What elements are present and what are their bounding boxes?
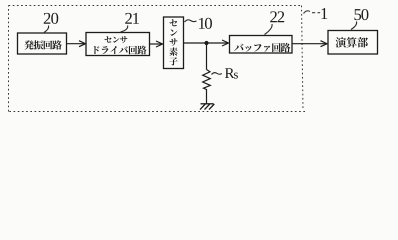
label 22 with leader [265,11,285,34]
label 20 with leader [44,13,59,33]
block 演算部 (arithmetic unit) 50 [328,31,378,55]
block センサドライバ回路 (sensor driver circuit) 21 [86,33,150,56]
wire 発振回路 to センサドライバ回路 with arrowhead [67,41,86,47]
label 21 with leader [121,13,139,32]
resistor Rs zigzag [203,70,211,104]
ground symbol [200,104,214,110]
label 10 with tilde leader [185,18,212,29]
wire センサドライバ回路 to センサ素子 with arrowhead [150,41,163,47]
block バッファ回路 (buffer circuit) 22 [230,36,293,54]
block 発振回路 (oscillator circuit) 20 [18,33,67,54]
wire junction down to resistor Rs [206,43,208,70]
label 50 with leader [351,9,368,30]
wire バッファ回路 to 演算部 with arrowhead [292,41,327,47]
block センサ素子 (sensor element) 10, vertical [164,17,184,69]
node junction dot [204,41,208,45]
wire センサ素子 to バッファ回路 with arrowhead [184,40,229,46]
node label 1 with dashed leader [321,8,327,19]
label Rs with tilde leader [212,68,238,78]
dashed enclosure box (device 1) [9,6,306,112]
